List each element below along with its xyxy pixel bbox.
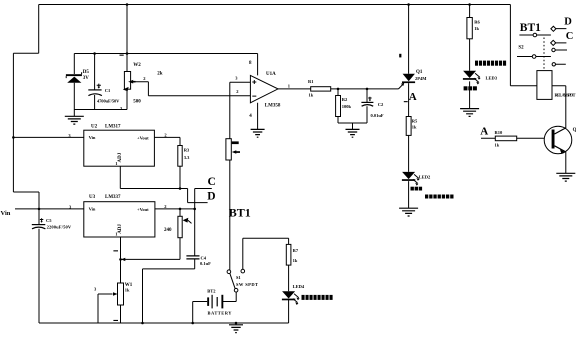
svg-text:A: A <box>409 91 417 103</box>
svg-text:LED2: LED2 <box>419 175 431 180</box>
svg-text:3.3: 3.3 <box>184 155 190 160</box>
svg-text:C: C <box>566 31 574 42</box>
svg-text:C5: C5 <box>46 218 52 223</box>
svg-text:ADJ: ADJ <box>118 152 123 162</box>
svg-text:2: 2 <box>143 76 146 81</box>
svg-text:BT1: BT1 <box>229 206 251 220</box>
svg-text:C2: C2 <box>378 102 384 107</box>
svg-text:Vin: Vin <box>89 207 96 212</box>
svg-text:1k: 1k <box>412 124 417 129</box>
svg-text:LED4: LED4 <box>293 284 305 289</box>
svg-text:LED3: LED3 <box>486 76 498 81</box>
svg-text:0.1uF: 0.1uF <box>200 261 211 266</box>
svg-text:A: A <box>480 126 488 138</box>
svg-text:U3: U3 <box>89 195 96 200</box>
svg-text:LM337: LM337 <box>105 195 121 200</box>
svg-text:S2: S2 <box>518 45 524 50</box>
svg-text:500: 500 <box>133 100 141 105</box>
svg-text:+Vout: +Vout <box>137 135 149 140</box>
svg-text:C4: C4 <box>201 255 207 260</box>
svg-text:100k: 100k <box>342 104 352 109</box>
svg-text:R5: R5 <box>412 119 418 124</box>
svg-text:RELAY-SPDT: RELAY-SPDT <box>555 93 576 98</box>
svg-text:1k: 1k <box>125 288 130 293</box>
svg-text:LM358: LM358 <box>265 103 281 108</box>
svg-text:D: D <box>207 190 215 202</box>
svg-text:BATTERY: BATTERY <box>208 311 233 316</box>
svg-text:240: 240 <box>164 228 172 233</box>
svg-text:R6: R6 <box>474 19 480 24</box>
svg-text:Q2: Q2 <box>573 128 576 133</box>
svg-text:ADJ: ADJ <box>118 224 123 234</box>
svg-text:2200uF/50V: 2200uF/50V <box>47 225 72 230</box>
svg-text:U2: U2 <box>91 124 98 129</box>
svg-text:R1: R1 <box>308 79 314 84</box>
svg-text:4700uF/50V: 4700uF/50V <box>97 98 120 103</box>
svg-text:3: 3 <box>120 106 123 111</box>
svg-text:S1: S1 <box>236 275 242 280</box>
svg-text:Vin: Vin <box>1 210 11 217</box>
svg-text:4: 4 <box>249 114 252 119</box>
svg-text:1k: 1k <box>293 258 298 263</box>
svg-text:LM317: LM317 <box>105 124 121 129</box>
svg-text:1: 1 <box>288 84 291 89</box>
svg-text:R7: R7 <box>293 248 299 253</box>
svg-text:2k: 2k <box>157 72 163 77</box>
svg-text:BT2: BT2 <box>207 289 216 294</box>
svg-text:Vin: Vin <box>89 135 96 140</box>
svg-text:+Vout: +Vout <box>137 207 149 212</box>
svg-text:1k: 1k <box>309 92 314 97</box>
svg-text:D: D <box>564 17 572 28</box>
svg-text:3: 3 <box>235 76 238 81</box>
svg-text:3V: 3V <box>83 76 90 81</box>
svg-text:W2: W2 <box>133 63 141 68</box>
svg-text:R10: R10 <box>495 130 503 135</box>
svg-text:Q1: Q1 <box>416 70 423 75</box>
svg-text:2P4M: 2P4M <box>415 76 427 81</box>
svg-text:2: 2 <box>236 89 239 94</box>
svg-text:C: C <box>208 176 216 188</box>
svg-text:SW SPDT: SW SPDT <box>236 282 258 287</box>
svg-text:1k: 1k <box>495 143 500 148</box>
svg-text:R3: R3 <box>184 147 190 152</box>
svg-text:8: 8 <box>249 61 252 66</box>
svg-text:U1A: U1A <box>266 72 276 77</box>
svg-text:3: 3 <box>94 287 97 292</box>
svg-text:0.01uF: 0.01uF <box>371 113 384 118</box>
svg-text:R2: R2 <box>342 97 348 102</box>
svg-text:C1: C1 <box>105 88 111 93</box>
svg-text:D5: D5 <box>83 70 90 75</box>
svg-text:BT1: BT1 <box>520 22 541 34</box>
svg-text:1k: 1k <box>474 26 479 31</box>
